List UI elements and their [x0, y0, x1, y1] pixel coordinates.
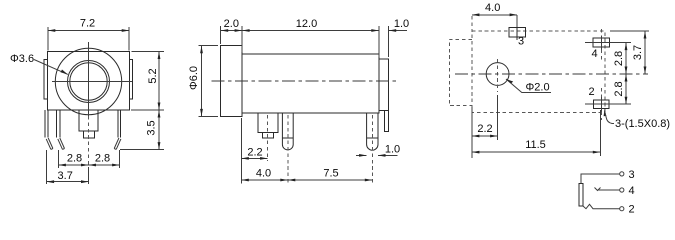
- leader 3-(1.5X0.8): [604, 109, 670, 130]
- dimension 5.2 right: [131, 52, 164, 111]
- top view flange dashed outline: [449, 39, 472, 105]
- svg-text:3.7: 3.7: [58, 170, 73, 182]
- dimension 2.2 top view bottom: [472, 107, 498, 158]
- pad 3 (top): [509, 24, 526, 48]
- svg-text:4: 4: [629, 185, 635, 197]
- right mounting bracket: [384, 111, 388, 132]
- bushing under body: [258, 113, 278, 133]
- svg-text:2.8: 2.8: [67, 153, 82, 165]
- bushing centerline dashed: [88, 116, 90, 168]
- vertical centerline: [88, 42, 90, 118]
- svg-text:11.5: 11.5: [525, 139, 546, 151]
- svg-text:3.7: 3.7: [632, 45, 644, 60]
- circle vertical centerline: [497, 59, 499, 92]
- dimension 7.5 bottom: [288, 168, 373, 182]
- pin 2 centerline dashed: [371, 115, 373, 184]
- dimension 11.5 bottom: [472, 110, 600, 156]
- svg-text:4.0: 4.0: [256, 168, 271, 180]
- dimension 4.0 top view: [472, 2, 517, 31]
- wire terminal 2 with contact ^: [583, 204, 620, 208]
- dimension 3.7 far right: [610, 31, 649, 74]
- svg-text:2.0: 2.0: [224, 18, 239, 30]
- svg-text:Φ2.0: Φ2.0: [526, 82, 550, 94]
- svg-text:12.0: 12.0: [296, 18, 317, 30]
- bushing centerline dashed: [267, 115, 269, 161]
- side view end cap: [379, 59, 389, 110]
- svg-text:3-(1.5X0.8): 3-(1.5X0.8): [615, 118, 670, 130]
- label Φ2.0 with leader: [506, 79, 551, 94]
- svg-text:3: 3: [518, 36, 524, 48]
- svg-text:1.0: 1.0: [385, 144, 400, 156]
- svg-text:3: 3: [629, 169, 635, 181]
- jack sleeve rectangle: [579, 183, 583, 206]
- svg-text:2.8: 2.8: [613, 51, 625, 66]
- svg-text:3.5: 3.5: [146, 120, 158, 135]
- dimension 7.2 top: [48, 18, 129, 51]
- pin 1 (round tip): [282, 113, 293, 150]
- side view main body: [242, 54, 379, 113]
- wire terminal 4 with contact v: [595, 188, 601, 191]
- dimension 4.0 bottom: [241, 168, 287, 182]
- top view body dashed outline: [472, 31, 605, 113]
- dimension Φ6.0 left: [188, 46, 218, 117]
- svg-text:4.0: 4.0: [485, 2, 500, 14]
- center hole circle: [486, 63, 509, 86]
- side view horizontal centerline: [212, 80, 398, 82]
- front view right side tab: [130, 60, 133, 100]
- terminal 4 circle: [620, 188, 624, 192]
- horizontal centerline: [52, 81, 132, 83]
- dimension 3.5 right: [120, 110, 164, 150]
- dimension 2.8 2.8 bottom: [58, 150, 119, 168]
- bushing step: [262, 133, 273, 138]
- svg-text:Φ6.0: Φ6.0: [188, 66, 200, 90]
- dimension 1.0 top right: [389, 18, 409, 57]
- right leg: [117, 110, 119, 138]
- dimension 2.8 upper right: [613, 43, 628, 74]
- dimension 2.0 top: [221, 18, 242, 52]
- dimension 2.2 bottom: [241, 118, 267, 184]
- dimension 1.0 bottom right (pin width): [356, 144, 400, 157]
- front view body square: [47, 52, 129, 111]
- svg-text:Φ3.6: Φ3.6: [10, 53, 34, 65]
- pad 2 (right bottom): [585, 86, 631, 120]
- svg-text:7.5: 7.5: [323, 168, 338, 180]
- svg-text:2: 2: [629, 204, 635, 216]
- dimension 12.0 top: [242, 18, 379, 57]
- pin 1 centerline dashed: [287, 115, 289, 184]
- svg-text:2.8: 2.8: [613, 81, 625, 96]
- svg-text:2: 2: [589, 86, 595, 98]
- bottom bushing outer: [79, 110, 98, 131]
- svg-text:4: 4: [592, 48, 598, 60]
- dimension 3.7 bottom: [47, 150, 89, 184]
- front bezel outer circle: [55, 48, 121, 114]
- svg-text:1.0: 1.0: [394, 18, 409, 30]
- left leg 1: [44, 110, 46, 138]
- terminal 3 circle: [620, 172, 624, 176]
- front hole circle: [70, 63, 107, 100]
- label Φ3.6 with leader: [10, 53, 68, 74]
- svg-text:2.2: 2.2: [477, 123, 492, 135]
- dimension 2.8 lower right: [613, 74, 628, 104]
- svg-text:2.2: 2.2: [247, 147, 262, 159]
- pin 2 (round tip): [367, 113, 378, 150]
- side view flange: [221, 46, 242, 117]
- svg-text:2.8: 2.8: [95, 153, 110, 165]
- wire terminal 3: [581, 174, 620, 183]
- terminal 2 circle: [620, 207, 624, 211]
- circle horizontal centerline long: [455, 73, 648, 75]
- left leg 2: [56, 110, 58, 138]
- svg-text:7.2: 7.2: [80, 18, 95, 30]
- svg-text:5.2: 5.2: [147, 68, 159, 83]
- front inner ring: [68, 61, 110, 103]
- pad 4 (right top): [585, 29, 631, 60]
- bottom bushing step: [84, 131, 95, 138]
- front view left side tab: [44, 60, 47, 100]
